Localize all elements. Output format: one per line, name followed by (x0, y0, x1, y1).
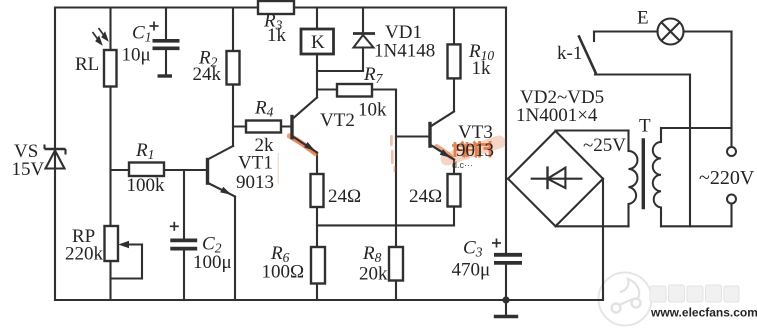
svg-text:k-1: k-1 (557, 43, 582, 64)
svg-text:R8: R8 (362, 243, 382, 265)
svg-text:C3: C3 (463, 238, 483, 260)
svg-text:220k: 220k (65, 244, 104, 265)
svg-text:470μ: 470μ (452, 260, 491, 281)
svg-text:K: K (311, 32, 325, 53)
svg-text:1N4001×4: 1N4001×4 (516, 105, 598, 126)
svg-text:9013: 9013 (236, 172, 274, 193)
svg-text:RL: RL (75, 54, 99, 75)
svg-text:20k: 20k (359, 264, 388, 285)
svg-text:C1: C1 (132, 23, 151, 45)
svg-text:VT2: VT2 (320, 110, 355, 131)
svg-text:15V: 15V (12, 159, 45, 180)
svg-text:24Ω: 24Ω (409, 186, 442, 207)
svg-text:24k: 24k (193, 64, 222, 85)
svg-text:~25V: ~25V (583, 135, 626, 156)
svg-text:100μ: 100μ (193, 252, 232, 273)
svg-text:1k: 1k (267, 25, 287, 46)
svg-text:1k: 1k (472, 58, 492, 79)
svg-text:R1: R1 (135, 140, 154, 162)
svg-text:10μ: 10μ (122, 45, 151, 66)
svg-text:1N4148: 1N4148 (374, 41, 435, 62)
svg-text:10k: 10k (358, 100, 387, 121)
svg-text:R4: R4 (254, 98, 274, 120)
svg-text:100k: 100k (127, 175, 166, 196)
svg-text:R7: R7 (363, 64, 384, 86)
svg-text:E: E (637, 8, 649, 29)
svg-text:d.c···: d.c··· (452, 160, 473, 170)
svg-text:~220V: ~220V (699, 167, 755, 189)
svg-text:www.elecfans.com: www.elecfans.com (650, 306, 757, 320)
svg-text:9013: 9013 (456, 140, 494, 161)
svg-text:2k: 2k (255, 135, 275, 156)
svg-text:100Ω: 100Ω (262, 262, 305, 283)
svg-text:24Ω: 24Ω (328, 186, 361, 207)
svg-text:T: T (639, 116, 651, 137)
